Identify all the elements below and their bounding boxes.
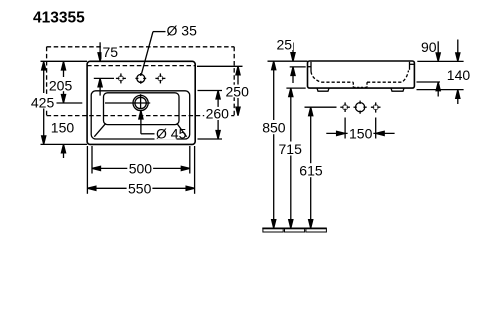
sink bottom extension (side view) [286, 87, 305, 89]
extension lines below sink for 500 [91, 146, 93, 174]
svg-text:413355: 413355 [33, 10, 85, 27]
tap hole right optional (side view) [371, 102, 381, 112]
dimension 250 [236, 66, 240, 115]
dimension 205 [57, 62, 131, 104]
basin rim extension right bottom [198, 138, 223, 140]
svg-text:425: 425 [31, 94, 55, 110]
basin floor (plan view) [104, 93, 180, 125]
basin rim (plan view) [91, 91, 190, 139]
extension lines below sink for 550 [86, 146, 88, 194]
svg-text:850: 850 [262, 120, 286, 136]
svg-text:500: 500 [129, 161, 153, 177]
interior ledge left (side view) [308, 66, 311, 68]
svg-text:260: 260 [206, 106, 230, 122]
dimension 140 [456, 40, 460, 105]
svg-text:75: 75 [103, 44, 119, 60]
basin corner diagonal bottom-left [94, 123, 106, 136]
ledge extension right [197, 65, 243, 67]
svg-text:Ø 35: Ø 35 [167, 23, 198, 39]
svg-text:550: 550 [128, 181, 152, 197]
sink top extension right (side view) [417, 60, 463, 62]
dimension 500 [92, 166, 190, 170]
interior bowl dashed profile (side view) [311, 71, 409, 88]
label backgrounds [30, 38, 374, 195]
extension lines left (sink top/bottom) [41, 60, 88, 62]
tap hole row extension (side view) [305, 106, 337, 108]
washbasin outline (plan view) [87, 61, 195, 144]
svg-text:150: 150 [51, 120, 75, 136]
leader line diameter 35 [142, 32, 166, 74]
dimension 260 [216, 91, 220, 140]
right foot (side view) [391, 88, 404, 91]
basin corner diagonal bottom-right [177, 123, 187, 136]
basin rim extension right top [198, 90, 223, 92]
svg-text:25: 25 [277, 36, 293, 52]
dashed template rectangle (plan view) [47, 47, 235, 116]
svg-text:140: 140 [447, 67, 471, 83]
interior ledge right (side view) [410, 63, 415, 65]
svg-text:Ø 45: Ø 45 [156, 126, 187, 142]
dimension 715 [289, 88, 293, 228]
dimension 150 (plan) [61, 144, 65, 158]
svg-text:615: 615 [299, 163, 323, 179]
svg-text:250: 250 [226, 83, 250, 99]
sink top extension left (side view) [268, 60, 308, 62]
leader line diameter 45 [139, 111, 155, 134]
dimension 850 [272, 61, 276, 228]
dimension 550 [87, 186, 194, 190]
floor line [262, 227, 327, 229]
svg-text:150: 150 [349, 125, 373, 141]
tap hole center (side view) [354, 101, 367, 114]
svg-text:205: 205 [49, 77, 73, 93]
tap hole center (plan view) [135, 73, 146, 84]
dimension 425 [42, 62, 46, 145]
dimension 25 (side view) [290, 43, 306, 84]
extension lines for 150 (side view) [344, 118, 346, 139]
tap hole right optional (plan view) [155, 73, 165, 83]
washbasin outline (side view) [308, 61, 415, 88]
floor hatch boxes [263, 229, 327, 232]
dimension 150 (side view) [326, 131, 394, 135]
hidden ledge dashed line (plan view) [87, 65, 195, 67]
dimension 75 [94, 42, 114, 95]
dimension 615 [309, 107, 313, 228]
dimension 90 [436, 41, 440, 96]
left foot (side view) [317, 88, 329, 91]
tap hole left optional (side view) [340, 102, 350, 112]
drain hole (plan view) [130, 94, 150, 110]
sink bottom extension right (side view) [417, 89, 464, 91]
tap hole left optional (plan view) [116, 73, 126, 83]
bowl bottom extension (side view) [417, 81, 441, 83]
svg-text:715: 715 [279, 141, 303, 157]
svg-text:90: 90 [421, 39, 437, 55]
